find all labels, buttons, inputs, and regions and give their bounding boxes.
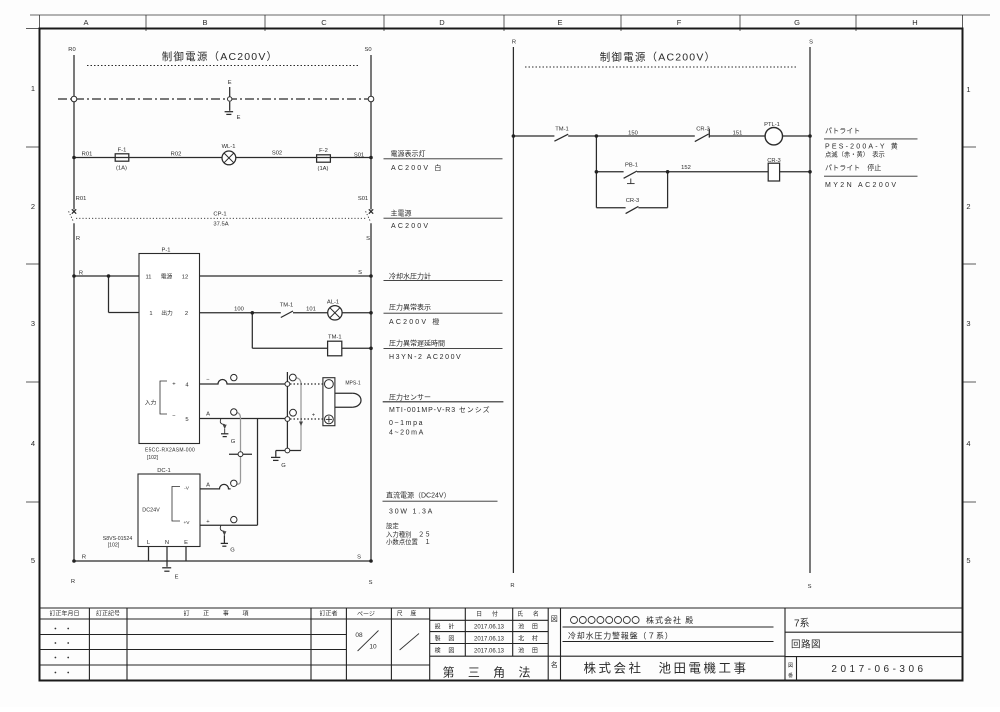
- svg-text:S: S: [357, 555, 361, 561]
- svg-text:08: 08: [355, 632, 363, 639]
- svg-text:S: S: [366, 236, 370, 242]
- svg-text:A: A: [83, 18, 88, 27]
- svg-text:2017.06.13: 2017.06.13: [474, 649, 505, 655]
- svg-text:圧力センサー: 圧力センサー: [389, 393, 431, 402]
- svg-text:2017.06.13: 2017.06.13: [474, 637, 505, 643]
- svg-text:R0: R0: [68, 47, 75, 53]
- svg-text:制御電源（AC200V）: 制御電源（AC200V）: [600, 51, 717, 64]
- svg-text:DC-1: DC-1: [157, 468, 171, 474]
- svg-text:30W 1.3A: 30W 1.3A: [389, 509, 434, 516]
- svg-text:G: G: [281, 463, 286, 469]
- svg-text:S01: S01: [354, 153, 364, 159]
- svg-text:設 計: 設 計: [435, 623, 458, 631]
- svg-text:DC24V: DC24V: [142, 508, 160, 514]
- svg-text:池 田: 池 田: [518, 623, 541, 631]
- svg-text:製 図: 製 図: [435, 635, 458, 643]
- svg-text:訂正者: 訂正者: [319, 610, 337, 618]
- svg-text:11: 11: [145, 275, 151, 281]
- svg-text:3: 3: [966, 319, 970, 328]
- svg-text:12: 12: [182, 275, 188, 281]
- svg-text:CP-1: CP-1: [213, 212, 226, 218]
- svg-text:S: S: [808, 584, 812, 590]
- svg-text:点滅（赤・黄） 表示: 点滅（赤・黄） 表示: [825, 150, 885, 159]
- svg-text:MY2N AC200V: MY2N AC200V: [825, 182, 898, 189]
- svg-text:ページ: ページ: [357, 611, 375, 618]
- svg-text:S0: S0: [364, 47, 371, 53]
- svg-text:+: +: [206, 519, 210, 525]
- svg-text:A: A: [206, 412, 210, 418]
- svg-text:CR-3: CR-3: [626, 198, 640, 204]
- svg-text:−: −: [206, 377, 210, 383]
- svg-text:[102]: [102]: [147, 455, 159, 461]
- svg-text:4~20mA: 4~20mA: [389, 430, 425, 437]
- svg-text:S01: S01: [358, 196, 368, 202]
- svg-text:10: 10: [369, 644, 377, 651]
- svg-text:A: A: [206, 483, 210, 489]
- svg-text:R: R: [71, 579, 75, 585]
- svg-text:制御電源（AC200V）: 制御電源（AC200V）: [162, 50, 279, 63]
- svg-text:H3YN-2 AC200V: H3YN-2 AC200V: [389, 354, 462, 361]
- svg-text:2: 2: [31, 202, 35, 211]
- svg-text:氏 名: 氏 名: [517, 610, 543, 618]
- svg-text:圧力異常表示: 圧力異常表示: [389, 303, 431, 312]
- svg-text:R: R: [79, 271, 83, 277]
- svg-text:S8VS-01524: S8VS-01524: [103, 536, 133, 542]
- svg-text:直流電源（DC24V）: 直流電源（DC24V）: [386, 491, 451, 500]
- svg-text:R: R: [512, 40, 516, 46]
- svg-text:E5CC-RX2ASM-000: E5CC-RX2ASM-000: [145, 448, 195, 454]
- svg-text:1: 1: [966, 85, 970, 94]
- svg-text:R: R: [510, 583, 514, 589]
- svg-text:電源表示灯: 電源表示灯: [391, 149, 426, 158]
- svg-text:2: 2: [185, 311, 188, 317]
- svg-text:PES-200A-Y 黄: PES-200A-Y 黄: [825, 142, 900, 151]
- svg-text:E: E: [557, 18, 562, 27]
- svg-text:(1A): (1A): [116, 166, 127, 172]
- svg-text:101: 101: [306, 307, 316, 313]
- svg-text:CR-3: CR-3: [767, 158, 781, 164]
- svg-text:訂正年月日: 訂正年月日: [49, 610, 79, 618]
- svg-text:S: S: [358, 270, 362, 276]
- svg-text:設定: 設定: [386, 521, 399, 530]
- svg-text:(1A): (1A): [318, 166, 329, 172]
- svg-text:4: 4: [31, 439, 35, 448]
- svg-text:C: C: [321, 18, 327, 27]
- svg-text:-V: -V: [184, 486, 190, 492]
- svg-text:F-1: F-1: [118, 148, 127, 154]
- svg-text:北 村: 北 村: [518, 635, 541, 643]
- svg-text:冷却水圧力計: 冷却水圧力計: [389, 272, 431, 281]
- svg-text:日 付: 日 付: [476, 610, 502, 618]
- svg-text:S: S: [369, 580, 373, 586]
- svg-text:2017.06.13: 2017.06.13: [474, 625, 505, 631]
- svg-text:P-1: P-1: [161, 248, 170, 254]
- svg-text:G: G: [794, 18, 800, 27]
- svg-text:名: 名: [551, 660, 558, 669]
- svg-text:150: 150: [628, 131, 638, 137]
- svg-text:151: 151: [733, 131, 743, 137]
- svg-text:F: F: [677, 18, 682, 27]
- svg-text:TM-1: TM-1: [328, 335, 342, 341]
- svg-text:E: E: [228, 80, 232, 86]
- svg-text:E: E: [175, 575, 179, 581]
- svg-text:WL-1: WL-1: [222, 144, 236, 150]
- svg-text:N: N: [165, 540, 169, 546]
- svg-text:AL-1: AL-1: [327, 300, 339, 306]
- svg-text:S: S: [809, 40, 813, 46]
- svg-text:TM-1: TM-1: [280, 303, 294, 309]
- svg-text:100: 100: [234, 307, 244, 313]
- svg-text:入力種別 ２５: 入力種別 ２５: [386, 530, 431, 539]
- svg-text:CR-3: CR-3: [696, 127, 710, 133]
- svg-text:E: E: [237, 115, 241, 121]
- svg-text:訂 正 事 項: 訂 正 事 項: [183, 610, 254, 618]
- svg-text:TM-1: TM-1: [555, 127, 569, 133]
- svg-text:2: 2: [966, 202, 970, 211]
- svg-text:H: H: [912, 18, 917, 27]
- svg-text:株式会社 殿: 株式会社 殿: [646, 615, 694, 625]
- svg-text:5: 5: [966, 556, 970, 565]
- svg-text:R: R: [82, 555, 86, 561]
- svg-text:回路図: 回路図: [791, 639, 821, 651]
- svg-text:MPS-1: MPS-1: [345, 381, 361, 387]
- svg-text:1: 1: [31, 84, 35, 93]
- svg-text:AC200V 白: AC200V 白: [391, 163, 444, 172]
- svg-text:R02: R02: [171, 152, 182, 158]
- svg-text:5: 5: [185, 417, 188, 423]
- svg-text:E: E: [184, 540, 188, 546]
- svg-text:入力: 入力: [145, 399, 157, 407]
- svg-text:尺 度: 尺 度: [397, 610, 420, 618]
- svg-text:AC200V: AC200V: [391, 223, 430, 230]
- svg-text:[102]: [102]: [108, 543, 120, 549]
- svg-text:図: 図: [551, 615, 558, 623]
- svg-text:訂正記号: 訂正記号: [96, 610, 120, 618]
- svg-text:S02: S02: [272, 151, 282, 157]
- svg-text:2017-06-306: 2017-06-306: [831, 664, 926, 675]
- svg-text:第 三 角 法: 第 三 角 法: [442, 666, 535, 680]
- svg-text:池 田: 池 田: [518, 647, 541, 655]
- svg-text:出力: 出力: [161, 309, 173, 317]
- svg-text:PTL-1: PTL-1: [764, 122, 780, 128]
- svg-text:+V: +V: [183, 520, 190, 526]
- svg-text:主電源: 主電源: [391, 209, 412, 218]
- svg-text:4: 4: [966, 439, 970, 448]
- svg-text:冷却水圧力警報盤（７系）: 冷却水圧力警報盤（７系）: [568, 631, 674, 641]
- svg-text:B: B: [202, 18, 207, 27]
- svg-text:圧力異常遅延時間: 圧力異常遅延時間: [389, 339, 445, 348]
- svg-text:AC200V 橙: AC200V 橙: [389, 317, 442, 326]
- svg-text:パトライト: パトライト: [825, 127, 860, 135]
- svg-text:1: 1: [149, 311, 152, 317]
- svg-text:MTI-001MP-V-R3 センシズ: MTI-001MP-V-R3 センシズ: [389, 405, 491, 414]
- svg-text:検 図: 検 図: [435, 647, 458, 655]
- svg-text:R01: R01: [76, 196, 87, 202]
- svg-text:電源: 電源: [161, 273, 173, 281]
- svg-text:G: G: [231, 439, 236, 445]
- svg-text:3: 3: [31, 319, 35, 328]
- svg-text:D: D: [439, 18, 445, 27]
- svg-text:図: 図: [788, 663, 793, 669]
- svg-text:5: 5: [31, 556, 35, 565]
- svg-text:R: R: [76, 236, 80, 242]
- svg-text:F-2: F-2: [319, 148, 328, 154]
- svg-text:7系: 7系: [794, 618, 810, 630]
- svg-text:152: 152: [681, 165, 691, 171]
- svg-text:0~1mpa: 0~1mpa: [389, 420, 424, 427]
- svg-text:G: G: [230, 548, 235, 554]
- svg-text:パトライト 停止: パトライト 停止: [825, 163, 881, 172]
- svg-text:37.5A: 37.5A: [213, 222, 228, 228]
- svg-text:PB-1: PB-1: [625, 163, 638, 169]
- svg-text:小数点位置 １: 小数点位置 １: [386, 537, 431, 546]
- svg-text:+: +: [312, 413, 316, 419]
- svg-text:番: 番: [788, 672, 793, 679]
- svg-text:R01: R01: [82, 152, 93, 158]
- svg-text:株式会社 池田電機工事: 株式会社 池田電機工事: [583, 661, 748, 676]
